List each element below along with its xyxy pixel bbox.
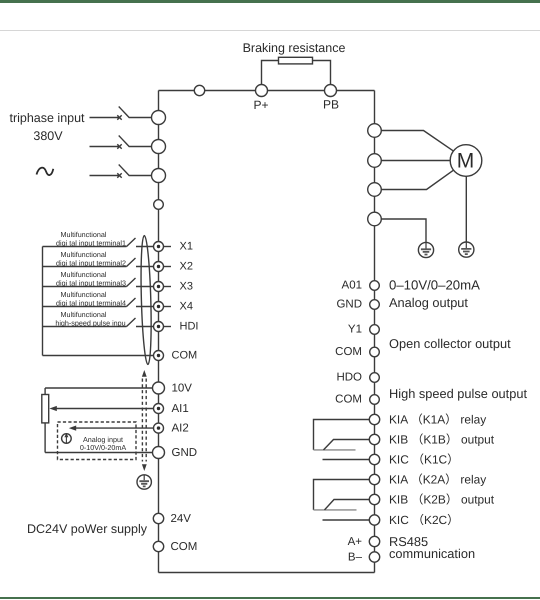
label 24V [171, 513, 192, 525]
svg-text:X3: X3 [180, 281, 193, 293]
wire GND row [45, 452, 152, 454]
svg-text:AI1: AI1 [172, 403, 189, 415]
terminal K1B [369, 434, 379, 444]
label triphase input [9, 111, 85, 125]
terminal U output [368, 124, 382, 138]
wire digital input X2 row with switch slash [43, 258, 154, 267]
label AI1 [172, 403, 189, 415]
label X4 [180, 301, 193, 313]
terminal 24V [153, 513, 163, 523]
label multifunctional HDI [55, 310, 125, 327]
symbol AC tilde [37, 168, 54, 175]
svg-text:24V: 24V [171, 513, 192, 525]
label KIC K2C [389, 513, 459, 527]
terminal PE output [368, 212, 382, 226]
svg-text:high-speed pulse inpu: high-speed pulse inpu [55, 318, 125, 327]
svg-text:KIB （K1B） output: KIB （K1B） output [389, 432, 495, 446]
label KIC K1C [389, 452, 459, 466]
label line X4 [164, 306, 171, 308]
svg-text:DC24V poWer supply: DC24V poWer supply [27, 522, 148, 536]
terminal X3 [154, 282, 164, 292]
svg-text:High speed pulse output: High speed pulse output [389, 386, 527, 401]
svg-text:COM: COM [172, 350, 198, 362]
breaker pole 3 wire+blade [90, 165, 152, 178]
svg-text:A+: A+ [348, 536, 363, 548]
relay K2 contact symbol [314, 480, 370, 521]
label Y1 [348, 324, 362, 336]
wire digital input left bus [42, 247, 44, 356]
label X2 [180, 261, 193, 273]
terminal AI2 [154, 423, 164, 433]
svg-text:COM: COM [171, 541, 198, 553]
terminal COM open collector [370, 347, 380, 357]
label multifunctional X4 [56, 290, 126, 307]
wire bottom bus [159, 572, 375, 574]
wire top bus [159, 90, 375, 92]
label COM pulse [335, 394, 362, 406]
terminal K1C [369, 454, 379, 464]
svg-text:380V: 380V [33, 129, 63, 143]
terminal X2 [154, 262, 164, 272]
label communication [389, 546, 475, 561]
svg-text:KIC （K1C）: KIC （K1C） [389, 452, 459, 466]
terminal B- [369, 552, 379, 562]
potentiometer RP [42, 388, 49, 453]
label KIB K2B output [389, 492, 495, 506]
motor M1 circle [450, 145, 482, 177]
terminal P+ [256, 85, 268, 97]
terminal A01 [370, 281, 380, 291]
svg-text:A01: A01 [342, 280, 362, 292]
terminal V output [368, 154, 382, 168]
svg-text:B–: B– [348, 552, 363, 564]
terminal K2B [369, 494, 379, 504]
label line X1 [164, 246, 171, 248]
terminal HDI [154, 322, 164, 332]
svg-text:0-10V/0-20mA: 0-10V/0-20mA [80, 443, 127, 452]
label motor M [457, 150, 475, 173]
svg-text:10V: 10V [172, 382, 193, 394]
label HDO [336, 372, 362, 384]
label analog input box [80, 435, 127, 452]
label line X2 [164, 266, 171, 268]
label Analog output [389, 295, 468, 310]
wire digital input X4 row with switch slash [43, 298, 154, 307]
wire digital input HDI row with switch slash [43, 318, 154, 327]
svg-text:Braking resistance: Braking resistance [243, 41, 346, 55]
label RS485 [389, 534, 428, 549]
wire digital input X1 row with switch slash [43, 238, 154, 247]
wire AI1 row with wiper arrow [49, 406, 153, 411]
svg-text:X2: X2 [180, 261, 193, 273]
terminal W output [368, 183, 382, 197]
ground symbol PE1 [418, 242, 433, 257]
label B- [348, 552, 363, 564]
breaker pole 1 wire+blade [90, 107, 152, 120]
label A+ [348, 536, 363, 548]
dashed box analog input [58, 422, 137, 460]
svg-text:triphase input: triphase input [9, 111, 85, 125]
svg-text:digi tal input terminal4: digi tal input terminal4 [56, 298, 126, 307]
wire AI2 row with arrow into analog box [69, 426, 154, 431]
terminal HDO [370, 373, 380, 383]
ground symbol PE2 motor [459, 242, 474, 257]
svg-text:digi tal input terminal1: digi tal input terminal1 [56, 238, 126, 247]
svg-text:COM: COM [335, 346, 362, 358]
label X1 [180, 241, 193, 253]
svg-text:HDO: HDO [336, 372, 362, 384]
breaker pole 2 wire+blade [90, 136, 152, 149]
wire W to motor [381, 170, 453, 189]
terminal T phase input [152, 169, 166, 183]
label A01 [342, 280, 362, 292]
label 380V [33, 129, 63, 143]
terminal K1A [369, 414, 379, 424]
label line HDI [164, 326, 171, 328]
label COM digital [172, 350, 198, 362]
wire COM row [43, 355, 154, 357]
svg-text:X1: X1 [180, 241, 193, 253]
label Braking resistance [243, 41, 346, 55]
terminal X1 [154, 242, 164, 252]
terminal R phase input [152, 111, 166, 125]
wire digital input X3 row with switch slash [43, 278, 154, 287]
label multifunctional X3 [56, 270, 126, 287]
svg-text:Open collector output: Open collector output [389, 336, 511, 351]
svg-text:KIA （K1A） relay: KIA （K1A） relay [389, 412, 486, 426]
svg-text:GND: GND [172, 447, 198, 459]
label KIB K1B output [389, 432, 495, 446]
svg-text:KIB （K2B） output: KIB （K2B） output [389, 492, 495, 506]
terminal COM digital [154, 351, 164, 361]
svg-text:AI2: AI2 [172, 422, 189, 434]
terminal GND analog [153, 447, 165, 459]
label 0-10V/0-20mA output [389, 278, 480, 293]
svg-text:PB: PB [323, 98, 339, 112]
terminal S phase input [152, 140, 166, 154]
svg-text:Y1: Y1 [348, 324, 362, 336]
label HDI [180, 321, 199, 333]
svg-text:digi tal input terminal2: digi tal input terminal2 [56, 258, 126, 267]
terminal AI1 [154, 404, 164, 414]
label KIA K2A relay [389, 472, 486, 486]
wire left rail [158, 91, 160, 573]
terminal GND right [370, 300, 380, 310]
label 10V [172, 382, 193, 394]
label line X3 [164, 286, 171, 288]
label multifunctional X2 [56, 250, 126, 267]
label multifunctional X1 [56, 230, 126, 247]
wire 10V row [45, 387, 152, 389]
label PB [323, 98, 339, 112]
svg-text:digi tal input terminal3: digi tal input terminal3 [56, 278, 126, 287]
braking resistor loop wire [262, 61, 331, 86]
current source symbol [62, 433, 72, 443]
shield drain arrows and dashed wire [142, 370, 147, 471]
svg-text:communication: communication [389, 546, 475, 561]
svg-text:KIA （K2A） relay: KIA （K2A） relay [389, 472, 486, 486]
node junction on top bus [194, 85, 204, 95]
label DC24V power supply [27, 522, 148, 536]
svg-text:X4: X4 [180, 301, 193, 313]
svg-text:KIC （K2C）: KIC （K2C） [389, 513, 459, 527]
terminal 10V [153, 382, 165, 394]
label Open collector output [389, 336, 511, 351]
wire PE to ground [381, 219, 426, 242]
svg-text:Analog output: Analog output [389, 295, 468, 310]
label COM open collector [335, 346, 362, 358]
label COM power [171, 541, 198, 553]
wire motor to ground [465, 176, 467, 242]
terminal K2A [369, 474, 379, 484]
label GND right [336, 299, 362, 311]
label GND analog [172, 447, 198, 459]
label P+ [253, 98, 268, 112]
svg-text:COM: COM [335, 394, 362, 406]
terminal X4 [154, 302, 164, 312]
terminal K2C [369, 515, 379, 525]
shield ellipse around digital inputs [140, 235, 153, 364]
terminal A+ [369, 536, 379, 546]
label KIA K1A relay [389, 412, 486, 426]
svg-text:GND: GND [336, 299, 362, 311]
terminal Y1 [370, 325, 380, 335]
terminal COM power [153, 541, 163, 551]
terminal PB [325, 85, 337, 97]
ground symbol shield [137, 475, 151, 489]
terminal COM pulse [370, 395, 380, 405]
resistor braking resistance [279, 57, 313, 64]
svg-text:0–10V/0–20mA: 0–10V/0–20mA [389, 278, 480, 293]
wire right rail [374, 91, 376, 573]
relay K1 contact symbol [314, 420, 370, 460]
svg-text:HDI: HDI [180, 321, 199, 333]
node small junction below phase terminals [154, 200, 164, 210]
label High speed pulse output [389, 386, 527, 401]
label AI2 [172, 422, 189, 434]
svg-text:M: M [457, 150, 475, 173]
wire V to motor [381, 160, 450, 162]
wire U to motor [381, 131, 453, 151]
label X3 [180, 281, 193, 293]
svg-text:P+: P+ [253, 98, 268, 112]
